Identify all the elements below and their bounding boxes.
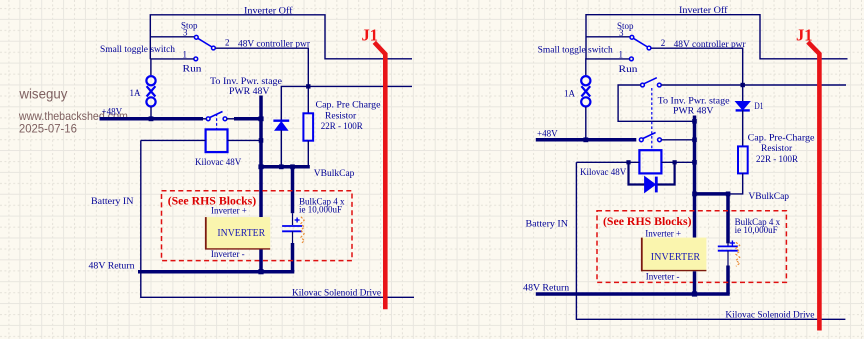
comment box See RHS Blocks (left) — [162, 191, 353, 261]
error squiggle (left cap) — [301, 217, 304, 244]
junction relay/PWR vertical (left) — [259, 138, 264, 143]
junction upper loop / PWR vertical (right) — [692, 119, 697, 124]
svg-text:Resistor: Resistor — [325, 110, 356, 120]
svg-text:VBulkCap: VBulkCap — [748, 192, 789, 202]
resistor R1 (left) — [303, 113, 313, 140]
bus PWR 48V vertical (left) — [259, 96, 263, 218]
junction resistor top (left) — [306, 84, 310, 88]
diode D1 (right) — [736, 102, 750, 111]
svg-text:+48V: +48V — [537, 129, 558, 139]
svg-text:wiseguy: wiseguy — [18, 86, 67, 102]
title block text wiseguy — [18, 86, 128, 136]
wire capacitor top thin (right) — [727, 243, 729, 245]
bus capacitor bottom lead (left) — [291, 243, 295, 272]
fuse F2 (right) — [581, 76, 590, 106]
svg-text:VBulkCap: VBulkCap — [314, 169, 355, 179]
relay coil K2 (right) — [639, 150, 661, 173]
wire fuse to +48V bus (left) — [150, 107, 152, 119]
bus 48V Return (left) — [138, 270, 294, 274]
svg-text:1A: 1A — [564, 89, 576, 99]
relay contact (left) — [206, 112, 227, 121]
svg-text:Inverter +: Inverter + — [211, 206, 247, 216]
svg-text:(See RHS Blocks): (See RHS Blocks) — [603, 214, 692, 228]
wire capacitor top thin (left) — [292, 213, 294, 225]
bus PWR 48V vertical (right) — [693, 116, 697, 238]
svg-text:PWR 48V: PWR 48V — [673, 105, 714, 115]
svg-text:+48V: +48V — [102, 107, 123, 117]
svg-text:Resistor: Resistor — [761, 143, 792, 153]
svg-text:D1: D1 — [754, 101, 763, 111]
svg-text:2: 2 — [225, 38, 230, 48]
svg-text:22R - 100R: 22R - 100R — [321, 121, 363, 131]
toggle switch SW1 (left) — [194, 35, 215, 60]
diode D-precharge (left) — [273, 121, 289, 131]
junction flyback left (right) — [626, 160, 630, 164]
wire inverter-off top (right) — [586, 15, 848, 60]
junction VBulkCap corner (right) — [726, 192, 731, 197]
wire run pin1 to fuse (left) — [151, 59, 194, 75]
wire contact to PWR vertical (right) — [661, 139, 694, 141]
junction inverter-/return (right) — [692, 291, 697, 296]
svg-text:3: 3 — [619, 28, 624, 38]
junction diode/VBulkCap bus (left) — [279, 164, 284, 169]
svg-text:Run: Run — [619, 64, 639, 74]
svg-text:Inverter +: Inverter + — [645, 228, 681, 238]
svg-text:2025-07-16: 2025-07-16 — [19, 122, 77, 136]
wire stop pin3 (left) — [150, 36, 194, 38]
bus +48V (right) — [536, 138, 637, 142]
upper relay contact (right) — [641, 78, 662, 87]
wire D1 to resistor (right) — [742, 110, 744, 146]
svg-text:ie 10,000uF: ie 10,000uF — [735, 225, 778, 235]
svg-text:1: 1 — [183, 50, 188, 60]
svg-text:Inverter -: Inverter - — [211, 249, 245, 259]
svg-text:ie 10,000uF: ie 10,000uF — [299, 205, 342, 215]
sheet block INVERTER (right) — [641, 238, 706, 272]
wire run pin1 to fuse (right) — [586, 59, 630, 75]
svg-text:48V controller pwr: 48V controller pwr — [238, 39, 310, 49]
connector J1 harness line (right) — [808, 42, 820, 331]
junction D1 top (right) — [741, 83, 745, 87]
wire stop pin3 (right) — [586, 36, 630, 38]
bus VBulkCap (right) — [693, 192, 728, 196]
bus capacitor top lead (left) — [291, 167, 295, 213]
wire to precharge net (left) — [281, 86, 412, 120]
junction fuse/+48V (right) — [583, 137, 588, 142]
wire 48V controller pwr (right) — [651, 48, 743, 85]
capacitor C1 plates (left) — [282, 226, 302, 231]
wire upper contact right / D1 net (right) — [661, 84, 846, 86]
wire contact leads (left) — [203, 118, 206, 120]
svg-text:1A: 1A — [130, 88, 142, 98]
svg-text:48V Return: 48V Return — [89, 261, 136, 271]
junction cap/VBulkCap bus (left) — [290, 164, 295, 169]
svg-text:1: 1 — [619, 50, 624, 60]
junction contact/PWR vertical (right) — [692, 138, 697, 143]
junction PWR/VBulkCap (right) — [692, 192, 697, 197]
capacitor C1 polarity plus (left) — [295, 218, 300, 223]
bus capacitor top lead (right) — [726, 194, 730, 244]
svg-text:Inverter Off: Inverter Off — [244, 6, 293, 16]
mechanical link dashes (right) — [651, 88, 653, 150]
bus +48V (left) — [100, 117, 204, 121]
bus contact to PWR48V vertical (left) — [234, 117, 261, 121]
fuse F1 (left) — [146, 76, 155, 106]
wire upper contact left loop (right) — [618, 85, 694, 121]
svg-text:Kilovac 48V: Kilovac 48V — [580, 167, 627, 177]
svg-text:22R - 100R: 22R - 100R — [756, 154, 798, 164]
error squiggle (right cap) — [736, 242, 740, 266]
wire resistor bottom lead (left) — [307, 141, 309, 167]
svg-text:Small toggle switch: Small toggle switch — [538, 45, 614, 55]
capacitor C2 polarity plus (right) — [730, 241, 735, 246]
svg-text:Cap. Pre Charge: Cap. Pre Charge — [316, 100, 381, 110]
wire kilovac solenoid drive (left) — [141, 140, 414, 297]
svg-text:To Inv. Pwr. stage: To Inv. Pwr. stage — [210, 76, 282, 86]
wire kilovac solenoid drive (right) — [576, 162, 845, 319]
svg-text:INVERTER: INVERTER — [651, 251, 701, 263]
wire relay coil right (right) — [661, 161, 694, 163]
bus 48V Return (right) — [536, 292, 730, 296]
wire 48V controller pwr (left) — [216, 48, 309, 86]
sheet block INVERTER (left) — [205, 217, 270, 249]
wire D1 top lead (right) — [742, 85, 744, 102]
bus capacitor bottom lead (right) — [726, 266, 730, 295]
wire capacitor bottom thin (left) — [292, 231, 294, 243]
bus inverter minus lead (right) — [693, 271, 697, 294]
bus inverter minus lead (left) — [259, 250, 263, 272]
svg-text:PWR 48V: PWR 48V — [229, 86, 270, 96]
svg-text:48V controller pwr: 48V controller pwr — [674, 39, 746, 49]
junction PWR/+48V (left) — [258, 116, 263, 121]
wire relay coil left (right) — [576, 161, 639, 163]
svg-text:Inverter -: Inverter - — [646, 272, 680, 282]
svg-text:To Inv. Pwr. stage: To Inv. Pwr. stage — [658, 96, 730, 106]
wire relay coil right (left) — [228, 139, 262, 141]
junction PWR/VBulkCap bus (left) — [258, 164, 263, 169]
svg-text:2: 2 — [661, 38, 666, 48]
relay contact on +48V (right) — [639, 133, 661, 142]
junction fuse/+48V (left) — [149, 116, 154, 121]
flyback diode loop (right) — [629, 162, 645, 184]
svg-text:48V Return: 48V Return — [523, 283, 570, 293]
flyback diode D2 (right) — [645, 177, 657, 193]
wire capacitor bottom thin (right) — [727, 251, 729, 266]
resistor R2 (right) — [738, 146, 748, 173]
svg-text:Small toggle switch: Small toggle switch — [100, 44, 176, 54]
wire relay coil left (left) — [141, 139, 206, 141]
svg-text:Inverter Off: Inverter Off — [679, 5, 728, 15]
wire fuse to +48V bus (right) — [585, 107, 587, 140]
svg-text:Run: Run — [183, 64, 203, 74]
capacitor C2 plates (right) — [718, 246, 738, 250]
svg-text:Cap. Pre-Charge: Cap. Pre-Charge — [748, 133, 815, 143]
svg-text:Kilovac Solenoid Drive: Kilovac Solenoid Drive — [725, 310, 814, 320]
connector J1 harness line (left) — [374, 42, 385, 309]
wire resistor top lead (left) — [307, 86, 309, 113]
junction flyback right (right) — [673, 160, 677, 164]
bus VBulkCap (left) — [259, 165, 310, 169]
svg-text:3: 3 — [183, 28, 188, 38]
junction inverter-/return (left) — [258, 269, 263, 274]
relay coil K1 (left) — [206, 129, 228, 152]
wire diode bottom (left) — [280, 130, 282, 167]
svg-text:INVERTER: INVERTER — [217, 227, 265, 239]
svg-text:Kilovac Solenoid Drive: Kilovac Solenoid Drive — [292, 288, 381, 298]
svg-text:Battery IN: Battery IN — [91, 196, 134, 206]
svg-text:Kilovac 48V: Kilovac 48V — [195, 157, 242, 167]
junction coil right/PWR (right) — [692, 160, 697, 165]
wire resistor bottom lead (right) — [728, 173, 743, 194]
comment box See RHS Blocks (right) — [597, 211, 786, 283]
svg-text:Battery IN: Battery IN — [526, 219, 569, 229]
toggle switch SW2 (right) — [630, 35, 651, 60]
mechanical link dashes (left) — [216, 114, 218, 130]
wire inverter-off top (left) — [150, 15, 412, 59]
